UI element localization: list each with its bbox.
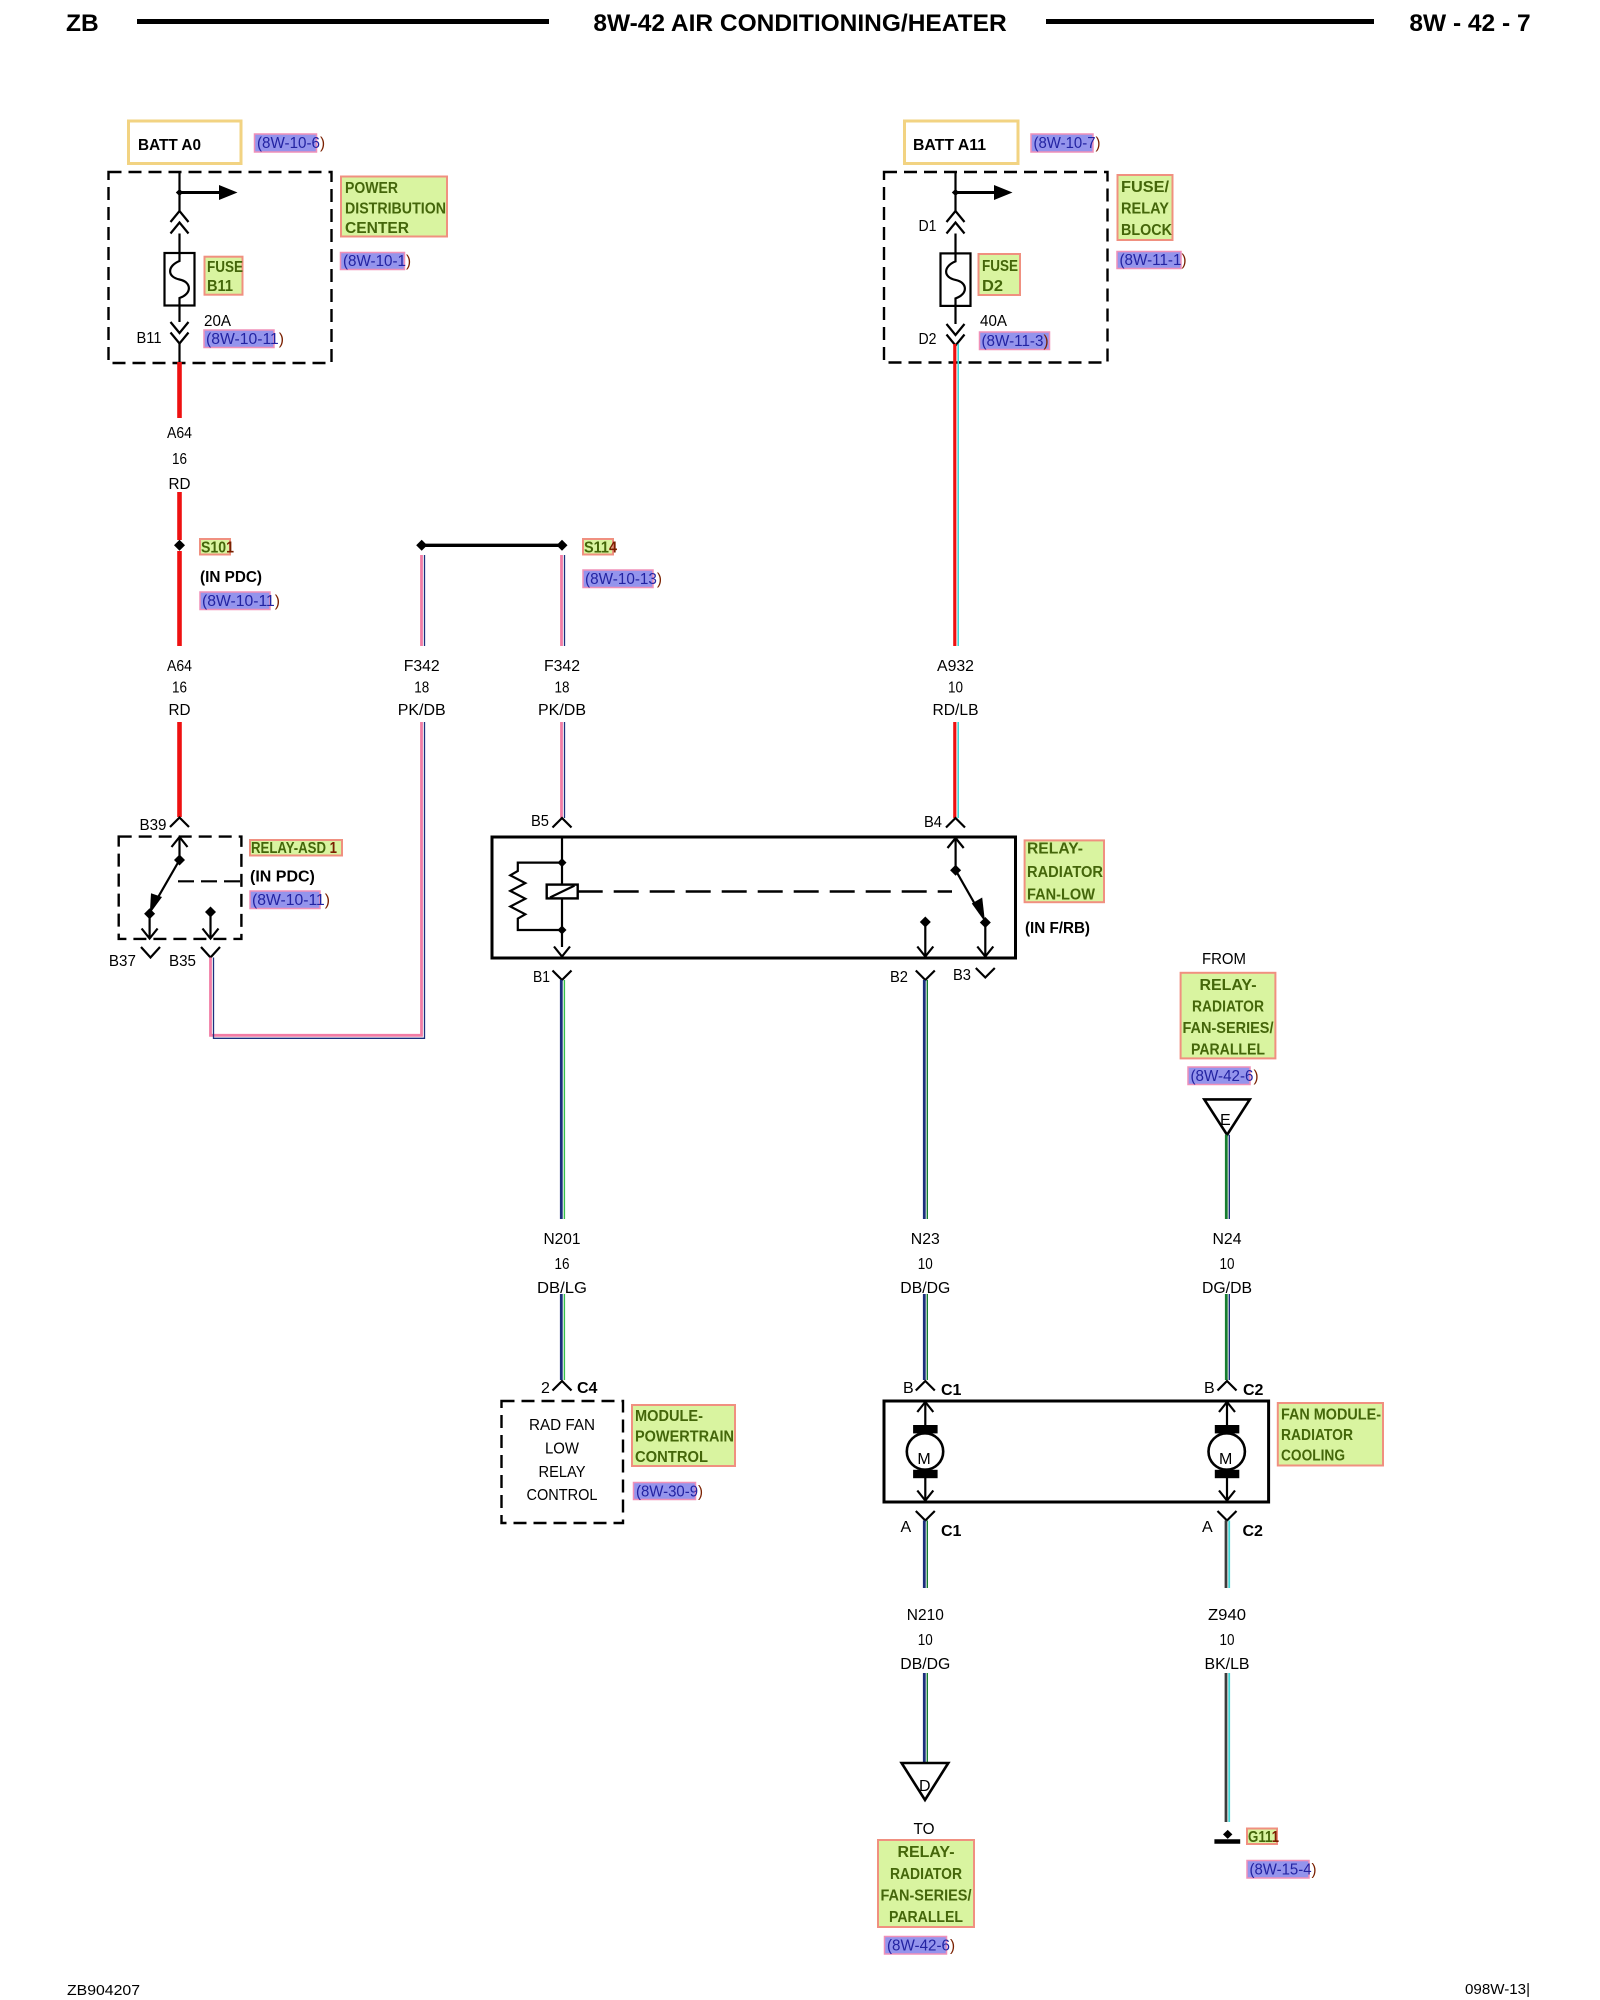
label RELAY-ASD 1 [250, 840, 342, 856]
feed arrow to other circuits [180, 191, 222, 194]
svg-text:C1: C1 [941, 1523, 962, 1540]
junction node top [558, 858, 567, 867]
in-line connector chevrons (top) [947, 211, 965, 234]
in-line connector chevrons (bottom) [947, 324, 965, 346]
coil-to-switch dashed link [578, 890, 952, 893]
svg-text:N210: N210 [907, 1607, 944, 1624]
svg-text:B11: B11 [207, 278, 233, 295]
wire A64 RD upper segment [177, 362, 182, 418]
wire A932 lower segment [953, 722, 956, 818]
reference (8W-10-1) [341, 253, 405, 270]
svg-text:18: 18 [414, 680, 429, 697]
splice node left [416, 540, 427, 551]
svg-text:TO: TO [914, 1821, 935, 1838]
svg-text:MODULE-: MODULE- [635, 1408, 703, 1425]
label FUSE B11 [205, 257, 243, 295]
splice node right S114 [557, 540, 568, 551]
svg-text:RELAY-: RELAY- [1200, 977, 1257, 994]
module rad fan low relay control dashed box [502, 1401, 624, 1523]
reference (8W-10-13) [583, 570, 653, 588]
svg-text:FAN MODULE-: FAN MODULE- [1281, 1407, 1381, 1424]
wire to B37 pin with exit arrow [149, 914, 151, 938]
wire N210 DB/DG [923, 1521, 926, 1589]
svg-text:RELAY-ASD 1: RELAY-ASD 1 [251, 840, 337, 857]
svg-text:B37: B37 [109, 953, 136, 970]
junction node bottom [558, 926, 567, 935]
reference (8W-42-6) [1188, 1067, 1250, 1085]
svg-text:A: A [1202, 1519, 1213, 1536]
svg-text:F342: F342 [544, 658, 580, 675]
svg-text:8W - 42 - 7: 8W - 42 - 7 [1409, 10, 1530, 37]
svg-text:RADIATOR: RADIATOR [1192, 999, 1264, 1016]
label MODULE-POWERTRAIN CONTROL [632, 1405, 735, 1466]
switch blade with arrowhead [956, 870, 980, 913]
reference (8W-15-4) [1247, 1861, 1309, 1879]
svg-text:(8W-10-6): (8W-10-6) [257, 135, 325, 152]
svg-text:098W-13|: 098W-13| [1465, 1982, 1530, 1998]
wire N201 DB/LG from B1 [560, 980, 563, 1219]
motor M2 brush top [1215, 1425, 1240, 1433]
reference (8W-10-6) [255, 134, 317, 152]
svg-text:CONTROL: CONTROL [527, 1487, 598, 1504]
svg-text:A932: A932 [937, 658, 974, 675]
fuse B11 element [165, 253, 195, 306]
svg-text:N23: N23 [911, 1231, 940, 1248]
wire A64 RD lower segment [177, 722, 182, 817]
svg-text:RADIATOR: RADIATOR [890, 1866, 962, 1883]
svg-text:B39: B39 [140, 817, 167, 834]
svg-text:(8W-10-11): (8W-10-11) [252, 892, 330, 909]
fuse/relay block dashed box [884, 172, 1108, 363]
header rule left [137, 19, 549, 24]
relay coil [547, 885, 578, 899]
svg-text:G111: G111 [1248, 1829, 1279, 1846]
svg-text:A: A [901, 1519, 912, 1536]
wire to fuse [178, 234, 180, 254]
B2 pin node [920, 917, 931, 928]
svg-text:B11: B11 [137, 330, 162, 347]
svg-text:DB/DG: DB/DG [900, 1656, 950, 1673]
label FAN MODULE-RADIATOR COOLING [1278, 1403, 1383, 1466]
svg-text:M: M [1219, 1451, 1232, 1468]
switch pivot node [950, 865, 961, 876]
reference (8W-10-11) [204, 330, 274, 348]
wire N210 lower segment [923, 1673, 926, 1763]
svg-text:FROM: FROM [1202, 951, 1246, 968]
svg-text:(8W-10-11): (8W-10-11) [202, 593, 280, 610]
svg-text:D2: D2 [982, 278, 1003, 295]
switch blade with arrowhead [153, 860, 180, 906]
wire N201 lower segment [560, 1294, 563, 1380]
resistor (coil suppression) [510, 863, 562, 930]
svg-text:BATT A0: BATT A0 [138, 137, 201, 154]
power distribution center dashed box [109, 172, 332, 363]
svg-text:8W-42 AIR CONDITIONING/HEATER: 8W-42 AIR CONDITIONING/HEATER [593, 10, 1007, 37]
svg-text:(8W-10-1): (8W-10-1) [343, 253, 411, 270]
reference (8W-11-3) [980, 332, 1050, 350]
svg-text:B2: B2 [890, 969, 908, 986]
svg-text:FAN-SERIES/: FAN-SERIES/ [1183, 1020, 1274, 1037]
svg-text:(8W-15-4): (8W-15-4) [1250, 1862, 1317, 1879]
svg-text:(8W-42-6): (8W-42-6) [1191, 1068, 1259, 1085]
svg-text:(8W-30-9): (8W-30-9) [636, 1484, 703, 1501]
wire from BATT A11 into block [954, 172, 956, 211]
wire PK/DB upper left segment [420, 555, 423, 646]
svg-text:B: B [903, 1380, 914, 1397]
motor M1 exit arrow [924, 1478, 926, 1501]
wire PK/DB from B35 down, right and up to S114 [211, 722, 422, 1035]
svg-text:16: 16 [555, 1256, 570, 1273]
inner dashed divider [178, 880, 241, 882]
wire to B2 with exit arrow [924, 922, 926, 956]
svg-text:(8W-10-7): (8W-10-7) [1034, 135, 1101, 152]
svg-text:(IN PDC): (IN PDC) [250, 869, 315, 886]
relay coil branch wire from B5 [561, 837, 563, 947]
svg-text:N24: N24 [1213, 1231, 1242, 1248]
svg-text:CONTROL: CONTROL [635, 1449, 708, 1466]
wire Z940 lower segment [1225, 1673, 1228, 1822]
wire N23 DB/DG from B2 [923, 980, 926, 1219]
svg-text:10: 10 [918, 1632, 933, 1649]
svg-text:FAN-LOW: FAN-LOW [1027, 887, 1096, 904]
svg-text:CENTER: CENTER [345, 220, 409, 237]
motor M2 exit arrow [1226, 1478, 1228, 1501]
reference (8W-10-7) [1031, 134, 1093, 152]
wire A64 RD segment [177, 551, 182, 646]
svg-text:B4: B4 [924, 814, 942, 831]
svg-text:C4: C4 [577, 1380, 598, 1397]
junction node [952, 189, 959, 196]
splice S114 tie line [422, 544, 562, 547]
svg-text:RADIATOR: RADIATOR [1281, 1427, 1353, 1444]
svg-text:BK/LB: BK/LB [1205, 1656, 1250, 1673]
label POWER DISTRIBUTION CENTER [341, 177, 447, 237]
junction node [176, 189, 183, 196]
svg-text:(8W-10-11): (8W-10-11) [206, 331, 284, 348]
svg-text:POWER: POWER [345, 180, 398, 197]
svg-text:20A: 20A [204, 313, 231, 330]
motor M1 brush top [913, 1425, 938, 1433]
splice S101 [174, 540, 185, 551]
svg-text:(IN PDC): (IN PDC) [200, 569, 262, 586]
svg-text:F342: F342 [404, 658, 440, 675]
relay-ASD dashed box [119, 837, 242, 939]
svg-text:10: 10 [918, 1256, 933, 1273]
svg-text:B35: B35 [169, 953, 196, 970]
svg-text:A64: A64 [167, 658, 192, 675]
label RELAY-RADIATOR FAN-SERIES/PARALLEL (destination) [878, 1840, 974, 1927]
fan module radiator cooling box [884, 1401, 1269, 1502]
svg-text:COOLING: COOLING [1281, 1448, 1345, 1465]
svg-text:C2: C2 [1243, 1382, 1264, 1399]
switch pivot node [174, 855, 185, 866]
relay radiator fan-low box [492, 837, 1016, 958]
svg-text:M: M [917, 1451, 930, 1468]
svg-text:10: 10 [948, 680, 963, 697]
label FUSE/RELAY BLOCK [1118, 175, 1173, 240]
fuse D2 element [941, 253, 971, 306]
svg-text:BLOCK: BLOCK [1121, 222, 1172, 239]
svg-text:PK/DB: PK/DB [538, 702, 586, 719]
svg-text:B3: B3 [953, 967, 971, 984]
wire to B35 with exit arrow [209, 912, 211, 938]
motor M2 [1209, 1433, 1245, 1469]
svg-text:RELAY-: RELAY- [898, 1844, 955, 1861]
svg-text:B5: B5 [531, 813, 549, 830]
feed arrow to other circuits [956, 191, 997, 194]
svg-text:RD: RD [169, 476, 191, 493]
relay B1 exit arrow [554, 947, 570, 957]
wire N23 lower segment [923, 1294, 926, 1380]
motor M2 entry arrow [1219, 1402, 1235, 1412]
label RELAY-RADIATOR FAN-SERIES/PARALLEL (source) [1181, 973, 1276, 1059]
svg-text:RADIATOR: RADIATOR [1027, 864, 1103, 881]
wire from fuse [178, 306, 180, 323]
svg-text:RELAY-: RELAY- [1027, 841, 1083, 858]
motor M1 brush bottom [913, 1470, 938, 1478]
svg-text:S114: S114 [584, 540, 617, 557]
reference (8W-11-1) [1117, 252, 1181, 269]
wire A932 RD/LB from fuse block [953, 344, 956, 646]
header rule right [1046, 19, 1374, 24]
svg-text:(8W-10-13): (8W-10-13) [585, 571, 662, 588]
motor M2 brush bottom [1215, 1470, 1240, 1478]
off-page connector D [902, 1763, 949, 1800]
svg-text:(8W-11-1): (8W-11-1) [1120, 252, 1187, 269]
reference (8W-42-6) [885, 1937, 947, 1955]
svg-text:(IN F/RB): (IN F/RB) [1025, 920, 1090, 937]
wire Z940 BK/LB [1225, 1521, 1228, 1589]
reference (8W-30-9) [634, 1483, 696, 1500]
svg-text:PK/DB: PK/DB [398, 702, 446, 719]
svg-text:PARALLEL: PARALLEL [889, 1909, 963, 1926]
off-page connector E [1204, 1099, 1250, 1134]
wire to B3 with exit arrow [984, 923, 986, 957]
svg-text:PARALLEL: PARALLEL [1191, 1042, 1265, 1059]
svg-text:FUSE/: FUSE/ [1121, 179, 1170, 196]
svg-text:(8W-42-6): (8W-42-6) [887, 1938, 955, 1955]
wire N24 lower segment [1225, 1294, 1228, 1380]
wire to fuse [954, 234, 956, 254]
svg-text:DISTRIBUTION: DISTRIBUTION [345, 201, 446, 218]
svg-text:Z940: Z940 [1208, 1607, 1246, 1624]
svg-text:2: 2 [541, 1380, 550, 1397]
ground G111 [1223, 1830, 1232, 1839]
wire from fuse [954, 306, 956, 324]
svg-text:LOW: LOW [545, 1441, 580, 1458]
wire from BATT A0 into PDC [178, 172, 180, 211]
svg-text:A64: A64 [167, 425, 192, 442]
svg-text:FAN-SERIES/: FAN-SERIES/ [881, 1888, 972, 1905]
reference (8W-10-11) [200, 592, 270, 610]
svg-text:RD/LB: RD/LB [933, 702, 979, 719]
svg-text:(8W-11-3): (8W-11-3) [982, 333, 1049, 350]
wire stub to box edge [178, 344, 180, 363]
svg-text:ZB: ZB [66, 10, 99, 37]
svg-text:FUSE: FUSE [207, 259, 243, 276]
wire PK/DB right segment [560, 555, 563, 646]
svg-text:POWERTRAIN: POWERTRAIN [635, 1429, 734, 1446]
svg-text:10: 10 [1220, 1632, 1235, 1649]
label RELAY-RADIATOR FAN-LOW [1025, 840, 1104, 902]
svg-text:B1: B1 [533, 969, 550, 986]
svg-text:C2: C2 [1243, 1523, 1264, 1540]
svg-text:16: 16 [172, 451, 187, 468]
in-line connector chevrons (top) [171, 211, 189, 234]
svg-text:N201: N201 [544, 1231, 581, 1248]
B35 pin node [205, 907, 216, 918]
motor M1 [907, 1433, 943, 1469]
svg-text:10: 10 [1220, 1256, 1235, 1273]
svg-text:RD: RD [169, 702, 191, 719]
relay coil feed arrow (B39 entry) [172, 837, 188, 847]
svg-text:ZB904207: ZB904207 [67, 1983, 140, 1999]
svg-text:S101: S101 [201, 540, 234, 557]
svg-text:RELAY: RELAY [1121, 201, 1169, 218]
svg-text:BATT A11: BATT A11 [913, 137, 986, 154]
svg-text:D: D [919, 1778, 931, 1795]
svg-text:C1: C1 [941, 1382, 962, 1399]
svg-text:40A: 40A [980, 313, 1007, 330]
reference (8W-10-11) [250, 891, 320, 909]
svg-text:B: B [1204, 1380, 1215, 1397]
svg-text:E: E [1220, 1112, 1231, 1129]
label FUSE D2 [979, 254, 1021, 295]
svg-text:16: 16 [172, 680, 187, 697]
svg-text:FUSE: FUSE [982, 258, 1018, 275]
wire N24 DG/DB [1225, 1135, 1228, 1219]
relay B4 entry arrow [948, 838, 964, 848]
wire PK/DB to relay B5 [560, 722, 563, 818]
battery feed box BATT A11 [905, 121, 1019, 164]
svg-text:RELAY: RELAY [539, 1464, 586, 1481]
wire A64 RD segment [177, 492, 182, 540]
svg-text:D1: D1 [919, 218, 937, 235]
in-line connector chevrons (bottom) [171, 322, 189, 344]
battery feed box BATT A0 [129, 121, 242, 164]
svg-text:18: 18 [555, 680, 570, 697]
switch contact node B3 [980, 917, 991, 928]
motor M1 entry arrow [917, 1402, 933, 1412]
svg-text:D2: D2 [919, 331, 937, 348]
svg-text:RAD FAN: RAD FAN [529, 1417, 595, 1434]
